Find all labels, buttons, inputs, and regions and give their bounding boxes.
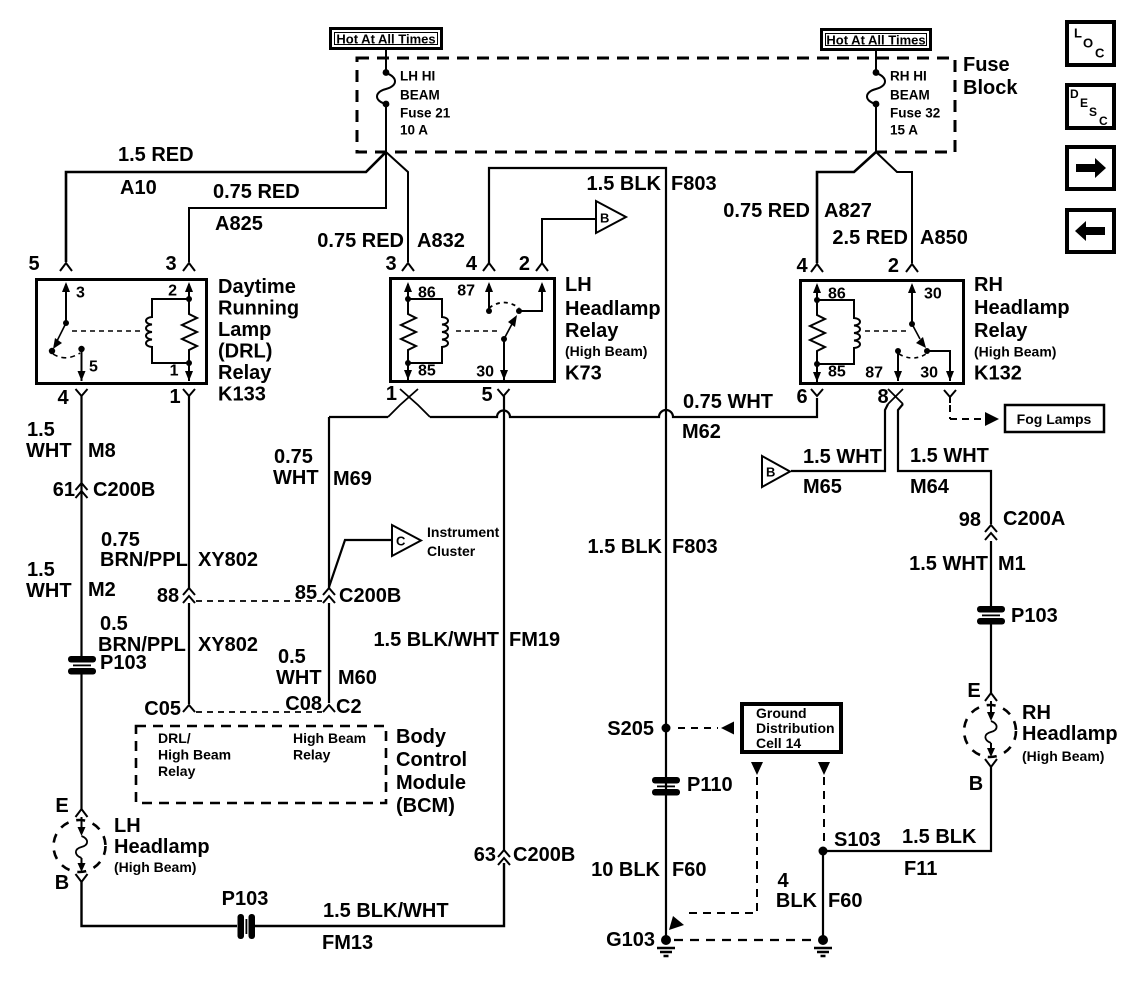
- svg-text:A10: A10: [120, 177, 157, 199]
- BCM dashed box: [136, 726, 386, 803]
- svg-text:1: 1: [170, 363, 179, 380]
- svg-text:BRN/PPL: BRN/PPL: [100, 549, 188, 571]
- svg-text:Block: Block: [963, 77, 1018, 99]
- svg-text:Headlamp: Headlamp: [1022, 723, 1118, 745]
- svg-text:B: B: [766, 465, 775, 480]
- DRL relay K133 box: [37, 280, 207, 384]
- svg-text:B: B: [600, 211, 609, 226]
- RH relay internal pin 87 terminal: [865, 348, 902, 382]
- wire 1.5 RED A10: [66, 144, 386, 262]
- svg-text:BEAM: BEAM: [890, 88, 930, 103]
- LH relay name label: [565, 274, 661, 385]
- connector C200A pin 98 inline: [959, 508, 1066, 540]
- svg-text:L: L: [1074, 26, 1082, 41]
- svg-text:Cell 14: Cell 14: [756, 735, 801, 751]
- RH relay pin 6 bottom connector: [796, 386, 823, 408]
- svg-text:C200B: C200B: [339, 585, 401, 607]
- wire 1.5 BLK/WHT FM13: [255, 863, 504, 954]
- LH relay pin 2 top connector: [519, 253, 548, 275]
- svg-text:Headlamp: Headlamp: [974, 297, 1070, 319]
- svg-text:Cluster: Cluster: [427, 543, 476, 559]
- svg-text:B: B: [55, 872, 69, 894]
- svg-text:E: E: [1080, 96, 1088, 110]
- svg-text:Module: Module: [396, 772, 466, 794]
- svg-text:Headlamp: Headlamp: [565, 298, 661, 320]
- svg-text:4: 4: [777, 870, 789, 892]
- dashed arrow S205 to ground distribution: [678, 722, 734, 735]
- DRL relay pin 4 bottom connector: [57, 387, 87, 409]
- svg-text:0.75 RED: 0.75 RED: [723, 200, 810, 222]
- svg-text:O: O: [1083, 36, 1093, 51]
- LH relay internal pin 85 terminal: [404, 363, 436, 381]
- svg-text:6: 6: [796, 386, 807, 408]
- dashed ground reference right leg: [818, 762, 830, 843]
- svg-text:LH HI: LH HI: [400, 69, 435, 84]
- svg-text:1.5 BLK: 1.5 BLK: [588, 536, 663, 558]
- wire 10 BLK F60 label: [591, 859, 706, 881]
- wire 1.5 WHT M64: [898, 404, 991, 524]
- svg-text:A825: A825: [215, 213, 263, 235]
- svg-text:M64: M64: [910, 476, 950, 498]
- svg-text:F11: F11: [904, 858, 937, 880]
- svg-text:Distribution: Distribution: [756, 720, 835, 736]
- svg-text:A850: A850: [920, 227, 968, 249]
- svg-text:Hot At All Times: Hot At All Times: [826, 33, 925, 48]
- svg-text:2: 2: [888, 255, 899, 277]
- LH relay coil: [405, 299, 448, 366]
- splice S205: [607, 718, 670, 740]
- svg-text:1: 1: [169, 386, 180, 408]
- svg-text:D: D: [1070, 87, 1079, 101]
- DRL relay switch output to pin 4: [78, 346, 99, 381]
- wire 1.5 WHT M1: [909, 541, 1026, 606]
- wire from LH headlamp B to bottom run: [82, 882, 238, 926]
- svg-text:1.5 WHT: 1.5 WHT: [803, 446, 882, 468]
- wire from left hot feed into fuse block: [385, 50, 387, 71]
- svg-text:G103: G103: [606, 929, 655, 951]
- svg-text:P103: P103: [100, 652, 147, 674]
- svg-text:S205: S205: [607, 718, 654, 740]
- BCM name label: [396, 726, 467, 817]
- svg-text:0.75: 0.75: [274, 446, 313, 468]
- svg-text:10 A: 10 A: [400, 123, 428, 138]
- svg-text:A832: A832: [417, 230, 465, 252]
- svg-text:1.5: 1.5: [27, 419, 55, 441]
- LH relay dashed throw arc: [489, 303, 519, 309]
- wire M2 continues to LH headlamp: [80, 674, 82, 809]
- wire 0.75 WHT M69: [273, 417, 372, 588]
- connector P110 inline on F803: [652, 774, 733, 796]
- wire 1.5 BLK F803 mid label: [588, 536, 718, 558]
- wire from fuse F32 to junction: [875, 103, 877, 152]
- wire 1.5 WHT M8 from DRL pin 4: [26, 396, 116, 656]
- svg-text:F60: F60: [672, 859, 706, 881]
- svg-text:M65: M65: [803, 476, 842, 498]
- svg-text:(High Beam): (High Beam): [565, 343, 647, 359]
- RH relay mechanical dashed link: [865, 330, 906, 332]
- svg-text:Relay: Relay: [158, 763, 196, 779]
- LH relay mechanical dashed link: [456, 330, 498, 332]
- DRL relay coil: [146, 296, 192, 363]
- svg-text:5: 5: [481, 384, 492, 406]
- svg-text:87: 87: [457, 283, 475, 300]
- instrument cluster branch wire: [329, 540, 392, 587]
- svg-text:61: 61: [53, 479, 75, 501]
- DRL relay internal pin 3 (30 terminal): [62, 282, 85, 323]
- fuse F32 RH HI BEAM: [867, 69, 940, 138]
- svg-text:XY802: XY802: [198, 549, 258, 571]
- svg-text:5: 5: [89, 359, 98, 376]
- svg-text:M2: M2: [88, 579, 116, 601]
- svg-text:(High Beam): (High Beam): [1022, 748, 1104, 764]
- svg-text:C08: C08: [285, 693, 322, 715]
- svg-text:(High Beam): (High Beam): [974, 344, 1056, 360]
- wire 1.5 BLK/WHT FM19: [373, 396, 560, 850]
- RH headlamp B terminal: [969, 759, 997, 795]
- svg-text:S: S: [1089, 105, 1097, 119]
- svg-text:P110: P110: [687, 774, 733, 796]
- svg-text:C05: C05: [144, 698, 181, 720]
- B triangle (M65): [762, 456, 790, 487]
- connector C200B pins 88-85 inline: [157, 582, 401, 607]
- svg-text:C200B: C200B: [513, 844, 575, 866]
- RH relay dashed throw arc: [899, 354, 926, 358]
- RH relay internal pin 30 top terminal: [908, 283, 942, 324]
- svg-text:K132: K132: [974, 363, 1022, 385]
- RH relay pin Y bottom connector: [944, 390, 956, 403]
- LH relay internal pin 87 terminal: [457, 282, 493, 314]
- wire BRN/PPL XY802 from DRL pin 1: [100, 396, 258, 588]
- connector P103 inline on M1 wire: [977, 605, 1058, 627]
- svg-text:Relay: Relay: [218, 362, 272, 384]
- svg-text:0.5: 0.5: [278, 646, 306, 668]
- svg-text:2: 2: [168, 283, 177, 300]
- svg-text:Daytime: Daytime: [218, 276, 296, 298]
- connector C200B pin 63 inline: [474, 844, 576, 866]
- svg-text:Relay: Relay: [974, 320, 1028, 342]
- svg-text:F803: F803: [671, 173, 717, 195]
- LH relay pin 5 bottom connector: [481, 384, 509, 406]
- splice S103: [819, 829, 881, 856]
- fuse block dashed box: [357, 58, 955, 152]
- LH headlamp E terminal: [55, 795, 87, 817]
- DRL relay pin 1 bottom connector: [169, 386, 195, 408]
- svg-text:M8: M8: [88, 440, 116, 462]
- ground G103 right: [814, 935, 832, 956]
- LH relay pin 3 top connector: [385, 253, 414, 275]
- svg-text:Control: Control: [396, 749, 467, 771]
- svg-text:F803: F803: [672, 536, 718, 558]
- wire 4 BLK F60: [776, 851, 863, 938]
- svg-text:Fuse 21: Fuse 21: [400, 106, 451, 121]
- RH headlamp relay K132 box: [801, 281, 964, 384]
- LH relay switch arm: [501, 315, 517, 342]
- svg-text:M1: M1: [998, 553, 1026, 575]
- DRL relay resistor: [182, 299, 197, 366]
- svg-text:Ground: Ground: [756, 705, 807, 721]
- DESC button: [1067, 85, 1114, 128]
- svg-text:BEAM: BEAM: [400, 88, 440, 103]
- RH relay internal pin 85 terminal: [813, 364, 846, 383]
- svg-text:C: C: [1099, 114, 1108, 128]
- svg-text:Relay: Relay: [293, 747, 331, 763]
- LH headlamp name label: [114, 815, 210, 875]
- LH headlamp bulb: [54, 817, 106, 872]
- DRL relay name label: [218, 276, 299, 406]
- svg-text:C: C: [1095, 46, 1105, 61]
- DRL relay mechanical dashed link: [72, 330, 140, 332]
- hot at all times box (left): [331, 29, 442, 49]
- svg-text:DRL/: DRL/: [158, 730, 191, 746]
- wire 0.75 RED A825: [189, 152, 386, 262]
- svg-text:Headlamp: Headlamp: [114, 836, 210, 858]
- wire 1.5 BLK F803 upper run: [489, 168, 717, 938]
- RH relay coil: [814, 300, 860, 367]
- wire 1.5 WHT M65 to B triangle: [791, 404, 888, 498]
- svg-text:85: 85: [295, 582, 317, 604]
- svg-text:1.5 WHT: 1.5 WHT: [909, 553, 988, 575]
- wire from right hot feed into fuse block: [875, 50, 877, 71]
- wire M1 continues to RH headlamp: [990, 624, 992, 693]
- svg-text:WHT: WHT: [26, 440, 72, 462]
- svg-text:Instrument: Instrument: [427, 524, 500, 540]
- svg-text:LH: LH: [565, 274, 592, 296]
- forward arrow button: [1067, 147, 1114, 189]
- hot at all times box (right): [822, 30, 931, 50]
- svg-text:98: 98: [959, 509, 981, 531]
- LH headlamp B terminal: [55, 872, 88, 894]
- wire 2.5 RED A850: [832, 152, 967, 263]
- svg-text:0.75 RED: 0.75 RED: [317, 230, 404, 252]
- DRL relay internal pin 1 terminal: [170, 363, 193, 382]
- RH relay internal pin 86 terminal: [813, 283, 846, 303]
- svg-text:WHT: WHT: [276, 667, 322, 689]
- svg-text:FM19: FM19: [509, 629, 560, 651]
- svg-text:3: 3: [385, 253, 396, 275]
- wire 1.5 BLK F11: [823, 767, 991, 880]
- svg-text:4: 4: [466, 253, 478, 275]
- RH relay resistor: [810, 297, 825, 364]
- BCM internal labels: [158, 730, 366, 779]
- svg-text:87: 87: [865, 365, 883, 382]
- wire 0.5 WHT M60: [276, 603, 377, 703]
- svg-text:88: 88: [157, 585, 179, 607]
- svg-text:10 BLK: 10 BLK: [591, 859, 660, 881]
- svg-text:P103: P103: [222, 888, 269, 910]
- svg-text:2: 2: [519, 253, 530, 275]
- wire from fuse F21 to junction: [385, 103, 387, 152]
- RH relay pin 2 top connector: [888, 255, 918, 277]
- svg-text:2.5 RED: 2.5 RED: [832, 227, 908, 249]
- svg-text:C200B: C200B: [93, 479, 155, 501]
- RH relay internal pin 30 bottom terminal: [920, 351, 954, 382]
- wire 0.5 BRN/PPL XY802 lower: [98, 603, 258, 704]
- svg-text:K73: K73: [565, 363, 602, 385]
- svg-text:E: E: [55, 795, 68, 817]
- DRL relay pin 5 top connector: [28, 253, 72, 275]
- svg-text:K133: K133: [218, 384, 266, 406]
- svg-text:RH HI: RH HI: [890, 69, 927, 84]
- svg-text:4: 4: [796, 255, 808, 277]
- svg-text:3: 3: [76, 285, 85, 302]
- svg-text:1: 1: [386, 383, 397, 405]
- svg-text:S103: S103: [834, 829, 881, 851]
- svg-text:30: 30: [920, 365, 938, 382]
- DRL relay switch: [49, 320, 69, 354]
- svg-text:C2: C2: [336, 696, 362, 718]
- fuse block label: [963, 54, 1018, 99]
- svg-text:(High Beam): (High Beam): [114, 859, 196, 875]
- connector P103 inline on M2 wire: [68, 652, 147, 675]
- svg-text:(BCM): (BCM): [396, 795, 455, 817]
- BCM pin C08 connector: [285, 693, 361, 718]
- svg-text:1.5 BLK: 1.5 BLK: [902, 826, 977, 848]
- dashed link C05-C08: [196, 711, 322, 713]
- svg-text:Fuse: Fuse: [963, 54, 1010, 76]
- svg-text:3: 3: [165, 253, 176, 275]
- BCM pin C05 connector: [144, 698, 195, 720]
- LH relay internal pin 86 terminal: [404, 282, 436, 302]
- svg-text:M62: M62: [682, 421, 721, 443]
- LH relay pin 1 bottom connector X: [386, 383, 430, 417]
- svg-text:C200A: C200A: [1003, 508, 1065, 530]
- B triangle (top): [596, 201, 626, 233]
- svg-text:4: 4: [57, 387, 69, 409]
- svg-text:Fog Lamps: Fog Lamps: [1017, 411, 1092, 427]
- ground distribution cell 14 box: [742, 704, 841, 752]
- wire 0.75 RED A832: [317, 152, 465, 262]
- wire from LH relay pin 2 to B triangle: [542, 219, 595, 263]
- svg-text:(DRL): (DRL): [218, 341, 272, 363]
- C triangle instrument cluster: [392, 524, 500, 559]
- wire 1.5 WHT M2 label: [26, 559, 116, 602]
- svg-text:RH: RH: [1022, 702, 1051, 724]
- RH headlamp bulb: [964, 701, 1016, 757]
- svg-text:63: 63: [474, 844, 496, 866]
- DRL relay switch dashed throw arc: [53, 353, 80, 358]
- svg-text:P103: P103: [1011, 605, 1058, 627]
- svg-text:0.5: 0.5: [100, 613, 128, 635]
- DRL relay internal pin 2 terminal: [168, 282, 193, 300]
- RH relay switch arm: [909, 321, 930, 354]
- connector C200B pin 61 inline: [53, 479, 156, 501]
- svg-text:E: E: [967, 680, 980, 702]
- svg-text:1.5 RED: 1.5 RED: [118, 144, 194, 166]
- svg-text:BLK: BLK: [776, 890, 818, 912]
- svg-text:A827: A827: [824, 200, 872, 222]
- fog lamps box: [1005, 405, 1104, 432]
- LH relay internal pin 30 terminal: [476, 339, 508, 381]
- svg-text:30: 30: [924, 286, 942, 303]
- DRL relay pin 3 top connector: [165, 253, 195, 275]
- fog lamps dashed reference arrow: [950, 405, 999, 426]
- svg-text:B: B: [969, 773, 983, 795]
- svg-text:High Beam: High Beam: [158, 747, 231, 763]
- svg-text:High Beam: High Beam: [293, 730, 366, 746]
- wire 0.75 RED A827: [723, 152, 876, 263]
- dashed link between grounds: [674, 939, 813, 941]
- svg-text:85: 85: [418, 363, 436, 380]
- svg-text:1.5 BLK/WHT: 1.5 BLK/WHT: [323, 900, 449, 922]
- back arrow button: [1067, 210, 1114, 252]
- RH relay name label: [974, 274, 1070, 385]
- svg-text:5: 5: [28, 253, 39, 275]
- RH relay pin 4 top connector: [796, 255, 823, 277]
- svg-text:1.5 BLK: 1.5 BLK: [587, 173, 662, 195]
- svg-text:Running: Running: [218, 298, 299, 320]
- svg-text:F60: F60: [828, 890, 862, 912]
- connector P103 inline on FM13 wire: [222, 888, 269, 939]
- svg-text:30: 30: [476, 364, 494, 381]
- LOC button: [1067, 22, 1114, 65]
- svg-text:Body: Body: [396, 726, 447, 748]
- RH headlamp E terminal: [967, 680, 997, 702]
- RH headlamp name label: [1022, 702, 1118, 764]
- svg-text:XY802: XY802: [198, 634, 258, 656]
- svg-text:Hot At All Times: Hot At All Times: [336, 32, 435, 47]
- svg-text:15 A: 15 A: [890, 123, 918, 138]
- LH relay pin 4 top connector: [466, 253, 495, 275]
- svg-text:Lamp: Lamp: [218, 319, 271, 341]
- ground G103 left: [606, 929, 675, 956]
- svg-text:RH: RH: [974, 274, 1003, 296]
- svg-text:LH: LH: [114, 815, 141, 837]
- LH relay internal pin 30-2 link: [516, 282, 546, 314]
- svg-text:M69: M69: [333, 468, 372, 490]
- svg-text:WHT: WHT: [273, 467, 319, 489]
- wire 0.75 WHT M62 with crossover bumps: [329, 391, 817, 443]
- LH relay resistor: [401, 296, 416, 363]
- svg-text:85: 85: [828, 364, 846, 381]
- svg-text:0.75: 0.75: [101, 529, 140, 551]
- LH headlamp relay K73 box: [391, 279, 555, 382]
- svg-text:1.5: 1.5: [27, 559, 55, 581]
- svg-text:Relay: Relay: [565, 320, 619, 342]
- dashed ground reference left leg: [669, 762, 763, 930]
- fuse F21 LH HI BEAM: [377, 69, 451, 138]
- svg-text:0.75 WHT: 0.75 WHT: [683, 391, 773, 413]
- svg-text:1.5 BLK/WHT: 1.5 BLK/WHT: [373, 629, 499, 651]
- svg-text:M60: M60: [338, 667, 377, 689]
- svg-text:WHT: WHT: [26, 580, 72, 602]
- svg-text:C: C: [396, 534, 406, 549]
- svg-text:0.75 RED: 0.75 RED: [213, 181, 300, 203]
- svg-text:Fuse 32: Fuse 32: [890, 106, 940, 121]
- RH relay pin 8 bottom connector X: [877, 386, 903, 408]
- svg-text:FM13: FM13: [322, 932, 373, 954]
- svg-text:1.5 WHT: 1.5 WHT: [910, 445, 989, 467]
